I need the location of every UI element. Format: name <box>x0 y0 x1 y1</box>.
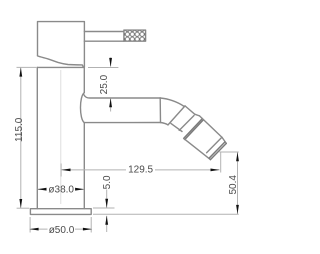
aerator end face <box>210 143 226 159</box>
aerator top edge <box>200 116 222 137</box>
svg-text:5.0: 5.0 <box>102 175 113 189</box>
ext line 5.0 top <box>93 207 115 209</box>
arrow 129.5 left <box>61 169 70 172</box>
body top edge <box>37 66 84 68</box>
dim 25 lower stem <box>110 98 112 111</box>
dim line d38 left part <box>38 188 46 190</box>
dim line d38 right part <box>77 188 85 190</box>
knurled knob outline <box>124 30 146 41</box>
dim 5.0 lower stem <box>106 216 108 232</box>
spout top edge <box>84 94 161 98</box>
handle head block <box>38 22 85 68</box>
arrow d50 right <box>83 228 92 231</box>
svg-text:50.4: 50.4 <box>228 175 239 195</box>
arrow 25 up (below line) <box>109 98 112 107</box>
dim line d50 right part <box>75 228 92 230</box>
dim line 50.4 <box>237 152 239 214</box>
arrow d38 left <box>37 188 46 191</box>
centerline of body <box>60 70 62 204</box>
ext line 129.5 left <box>60 164 62 177</box>
body right edge upper <box>83 67 85 92</box>
ext flange bottom long <box>93 213 239 215</box>
dim line 129.5 left part <box>62 169 127 171</box>
knurl hatch <box>124 30 145 41</box>
arrow 25 down (above line) <box>109 58 112 67</box>
ext line d50 left <box>29 217 31 233</box>
arrow d50 left <box>30 228 39 231</box>
dim line d50 left part <box>30 228 48 230</box>
svg-text:115.0: 115.0 <box>14 117 25 142</box>
arrow 129.5 right <box>211 169 220 172</box>
dim 5.0 upper stem <box>106 190 108 208</box>
arrow 115 down <box>19 199 22 208</box>
aerator end chamfer <box>222 137 226 143</box>
base flange <box>30 209 91 215</box>
svg-text:ø50.0: ø50.0 <box>49 225 75 236</box>
lever arm bottom <box>84 40 124 42</box>
lever arm top <box>84 31 124 33</box>
ext line 25 top <box>88 67 118 69</box>
ext line 115 top <box>17 66 37 68</box>
head bottom slant <box>38 56 84 67</box>
dim line 129.5 right part <box>155 169 220 171</box>
ext line 129.5 right <box>220 153 222 173</box>
spout root intersection arc <box>80 93 84 123</box>
aerator chamfer line <box>207 137 222 153</box>
body left edge <box>36 67 38 208</box>
body right edge lower <box>83 123 85 209</box>
ext line 50.4 top <box>220 151 239 153</box>
svg-text:129.5: 129.5 <box>128 165 153 176</box>
svg-text:ø38.0: ø38.0 <box>48 185 74 196</box>
tube-elbow joint <box>159 98 161 123</box>
arrow 50.4 up <box>236 152 239 161</box>
ext line d50 right <box>90 217 92 233</box>
aerator corner step <box>195 114 200 116</box>
svg-text:25.0: 25.0 <box>99 74 110 94</box>
dim line 115 <box>20 68 22 208</box>
cone bottom edge <box>171 123 182 131</box>
aerator left face <box>184 119 203 139</box>
aerator left face second line <box>185 120 204 140</box>
arrow 5.0 up <box>105 216 108 225</box>
arrow 50.4 down <box>236 205 239 214</box>
cone top edge <box>185 106 195 114</box>
ext line 115 bottom <box>17 207 30 209</box>
aerator end face inner line <box>209 142 225 158</box>
arrow d38 right <box>75 188 84 191</box>
dim 25 upper stem <box>110 58 112 67</box>
aerator bottom edge <box>184 138 211 159</box>
spout bottom edge <box>84 122 160 124</box>
elbow outer curve <box>160 98 184 107</box>
arrow 5.0 down <box>105 199 108 208</box>
elbow inner curve <box>161 123 169 125</box>
arrow 115 up <box>19 68 22 77</box>
elbow end joint J1 <box>168 106 185 125</box>
nut joint line <box>179 116 194 131</box>
